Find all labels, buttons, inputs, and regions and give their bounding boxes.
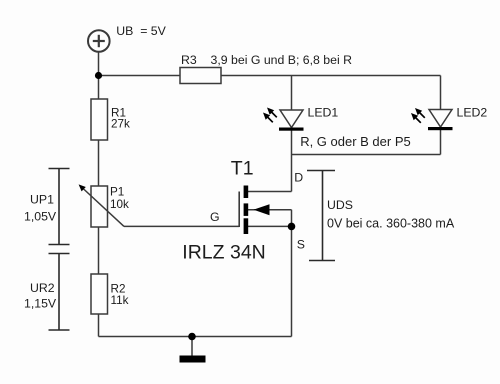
svg-text:10k: 10k	[110, 198, 129, 211]
svg-text:UDS: UDS	[327, 198, 353, 212]
svg-text:P1: P1	[110, 186, 124, 199]
svg-text:11k: 11k	[111, 294, 129, 307]
svg-text:IRLZ 34N: IRLZ 34N	[182, 241, 265, 263]
svg-text:G: G	[210, 210, 220, 224]
svg-text:3,9 bei G und B; 6,8 bei R: 3,9 bei G und B; 6,8 bei R	[211, 53, 353, 67]
svg-text:LED1: LED1	[308, 106, 339, 120]
svg-text:R, G oder B der P5: R, G oder B der P5	[300, 134, 411, 149]
svg-text:S: S	[297, 237, 305, 251]
svg-text:D: D	[294, 171, 303, 185]
svg-text:T1: T1	[231, 158, 254, 180]
svg-text:0V bei ca. 360-380 mA: 0V bei ca. 360-380 mA	[327, 217, 455, 231]
svg-text:LED2: LED2	[457, 106, 488, 120]
svg-text:1,15V: 1,15V	[24, 297, 57, 311]
svg-text:UB = 5V: UB = 5V	[116, 24, 166, 38]
svg-text:1,05V: 1,05V	[24, 210, 57, 224]
svg-text:R3: R3	[181, 53, 197, 67]
svg-text:UR2: UR2	[30, 281, 55, 295]
svg-text:27k: 27k	[111, 118, 130, 131]
svg-text:UP1: UP1	[30, 192, 54, 206]
